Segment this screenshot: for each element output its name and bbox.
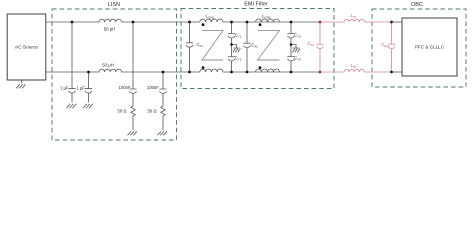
junction dot bottom rail C_Y3 (290, 71, 293, 74)
capacitor C_X3 (noise path, pink) (316, 22, 323, 72)
junction dot top rail 1uF tap (71, 21, 74, 24)
capacitor C_EQ (noise source, pink) (388, 22, 395, 72)
svg-text:50 Ω: 50 Ω (148, 109, 157, 114)
wire bottom rail (line N) with LISN and CM choke windings (46, 69, 320, 72)
svg-text:50 Ω: 50 Ω (118, 109, 127, 114)
capacitor C_Y3 / C_Y4 leg with ground (287, 22, 294, 72)
capacitor 100nF + resistor 50 Ohm (line L) (128, 22, 137, 135)
junction dot bottom rail 100nF tap (162, 71, 165, 74)
OBC box (372, 9, 466, 87)
CM choke L_CM2 core (Z) (258, 31, 280, 60)
junction dot top rail C_X1 (188, 21, 191, 24)
wire top rail pink segment with noise-path inductor winding (320, 19, 392, 22)
capacitor 1 uF (line N) (83, 72, 93, 108)
LISN box (52, 9, 177, 140)
junction pink top (319, 21, 322, 24)
svg-text:1 µF: 1 µF (77, 85, 86, 90)
svg-text:100nF: 100nF (147, 85, 159, 90)
junction dot top rail C_EQ (390, 21, 393, 24)
svg-text:100nF: 100nF (119, 85, 131, 90)
junction dot bottom rail C_X1 (188, 71, 191, 74)
PFC converter box U1 (402, 18, 457, 76)
junction dot top rail C_X2 (246, 21, 249, 24)
svg-text:50 µH: 50 µH (104, 26, 116, 31)
junction dot bottom rail 1uF tap (87, 71, 90, 74)
junction dot top rail C_Y1 (230, 21, 233, 24)
wire bottom rail to OBC (392, 71, 403, 73)
junction dot top rail C_Y3 (290, 21, 293, 24)
capacitor C_X2 (243, 22, 250, 72)
ground (between C_Y1 and C_Y2) (232, 45, 241, 53)
wire top rail to OBC (392, 21, 403, 23)
svg-text:OBC: OBC (411, 2, 423, 8)
junction pink bottom (319, 71, 322, 74)
capacitor C_Y1 / C_Y2 leg with ground (228, 22, 235, 72)
polarity dot L_CM1 top (202, 23, 205, 26)
choke 2 winding top (L_CM2) (256, 19, 280, 22)
polarity dot L_CM2 top (259, 23, 262, 26)
svg-text:LISN: LISN (108, 2, 120, 8)
ground (AC source) (16, 80, 25, 88)
junction dot bottom rail C_X2 (246, 71, 249, 74)
wire top rail (line L) with LISN and CM choke windings (46, 19, 320, 22)
junction node C_Y mid 1 (230, 43, 233, 46)
EMI Filter box (181, 9, 334, 89)
junction node C_Y mid 2 (290, 43, 293, 46)
wire bottom rail pink segment with noise-path inductor winding (320, 69, 392, 72)
AC source box (7, 14, 46, 80)
polarity dot L_CM2 bottom (259, 66, 262, 69)
junction dot bottom rail C_EQ (390, 71, 393, 74)
capacitor 1 uF (line L) (66, 22, 76, 108)
ground (between C_Y3 and C_Y4) (291, 45, 300, 53)
svg-text:1 µF: 1 µF (60, 85, 69, 90)
junction dot top rail 100nF tap (132, 21, 135, 24)
svg-text:PFC & CLLLC: PFC & CLLLC (415, 45, 445, 50)
junction dot bottom rail C_Y1 (230, 71, 233, 74)
CM choke L_CM1 core (Z) (202, 31, 223, 60)
capacitor 100nF + resistor 50 Ohm (line N) (158, 72, 167, 135)
choke 2 winding bottom (256, 69, 280, 72)
polarity dot L_CM1 bottom (202, 66, 205, 69)
capacitor C_X1 (186, 22, 193, 72)
svg-text:EMI Filter: EMI Filter (244, 1, 268, 7)
svg-text:AC Source: AC Source (15, 45, 39, 51)
svg-text:50 µH: 50 µH (102, 63, 114, 68)
